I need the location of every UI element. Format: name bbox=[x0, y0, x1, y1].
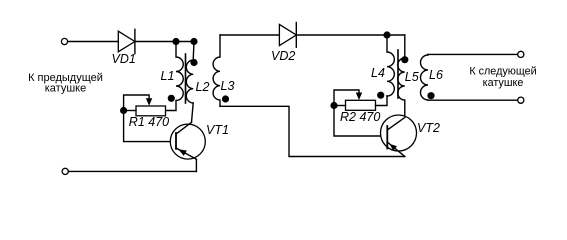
wire: R1 junction to VT1 base bbox=[124, 111, 176, 142]
phase dot of L5 bbox=[401, 56, 408, 63]
junction dot at R1 left bbox=[120, 107, 127, 114]
wire: R2 junction to VT2 base bbox=[334, 106, 387, 137]
svg-text:VT1: VT1 bbox=[206, 123, 229, 137]
svg-text:катушке: катушке bbox=[483, 77, 524, 89]
svg-text:R1 470: R1 470 bbox=[129, 115, 169, 129]
junction dot at L1 top bbox=[172, 38, 179, 45]
resistor R1 left lead bbox=[124, 110, 136, 112]
svg-text:L6: L6 bbox=[429, 68, 443, 82]
resistor R2 right lead bbox=[376, 96, 388, 106]
svg-text:L2: L2 bbox=[196, 80, 210, 94]
terminal: output (top-right) bbox=[518, 51, 524, 57]
transformer core T1 bbox=[185, 54, 187, 103]
wire: VT1 collector to L2 bottom bbox=[192, 103, 194, 122]
terminal: bottom-left bbox=[62, 168, 68, 174]
svg-text:катушке: катушке bbox=[45, 83, 86, 95]
transistor VT1 bbox=[170, 122, 205, 159]
wire: input terminal to VD1 anode bbox=[68, 41, 119, 43]
resistor R2 left lead bbox=[334, 105, 346, 107]
diode VD1 bbox=[118, 29, 135, 53]
resistor R1 (trimmer) body bbox=[136, 106, 166, 116]
svg-text:L4: L4 bbox=[371, 66, 385, 80]
phase dot of L6 bbox=[427, 92, 434, 99]
wire: bottom rail bbox=[69, 170, 197, 172]
phase dot of L1 bbox=[168, 95, 175, 102]
phase dot of L3 bbox=[222, 95, 229, 102]
inductor L3 bbox=[213, 35, 220, 106]
label: К следующей катушке bbox=[469, 66, 536, 89]
wire: L6 top to output terminal bbox=[428, 53, 518, 55]
junction dot at L2 top bbox=[190, 38, 197, 45]
wire: VD1 cathode to L1/L2 tops bbox=[135, 41, 194, 43]
svg-text:VT2: VT2 bbox=[417, 121, 440, 135]
resistor R1 wiper arrow bbox=[124, 95, 153, 111]
junction dot at L4 top bbox=[383, 31, 390, 38]
resistor R2 (trimmer) body bbox=[346, 100, 376, 110]
wire: L6 bottom to output terminal bbox=[428, 99, 518, 101]
wire: VD2 cathode to L4/L5 tops bbox=[296, 34, 405, 36]
wire: L3 top to VD2 anode bbox=[220, 34, 279, 36]
inductor L5 bbox=[398, 35, 405, 118]
transformer core T2 bbox=[397, 50, 399, 98]
inductor L1 bbox=[166, 42, 184, 111]
svg-text:L3: L3 bbox=[221, 79, 235, 93]
svg-text:VD2: VD2 bbox=[271, 49, 295, 63]
wire: VT1 emitter down to bottom rail bbox=[195, 159, 197, 171]
svg-text:R2 470: R2 470 bbox=[340, 110, 380, 124]
junction dot at R2 left bbox=[330, 102, 337, 109]
phase dot of L2 bbox=[190, 59, 197, 66]
terminal: output (bottom-right) bbox=[518, 97, 524, 103]
transistor VT2 bbox=[381, 115, 417, 157]
wire: L3 bottom to VT2 emitter bbox=[220, 106, 405, 156]
inductor L6 bbox=[421, 54, 428, 100]
svg-text:L1: L1 bbox=[161, 69, 175, 83]
diode VD2 bbox=[279, 23, 296, 48]
phase dot of L4 bbox=[377, 92, 384, 99]
svg-text:К следующей: К следующей bbox=[469, 66, 536, 78]
inductor L2 bbox=[186, 42, 194, 103]
label: К предыдущей катушке bbox=[28, 72, 103, 95]
resistor R2 wiper arrow bbox=[334, 90, 362, 106]
svg-text:VD1: VD1 bbox=[112, 52, 136, 66]
inductor L4 bbox=[387, 35, 394, 96]
svg-text:L5: L5 bbox=[405, 70, 419, 84]
terminal: input (top-left) bbox=[61, 38, 67, 44]
